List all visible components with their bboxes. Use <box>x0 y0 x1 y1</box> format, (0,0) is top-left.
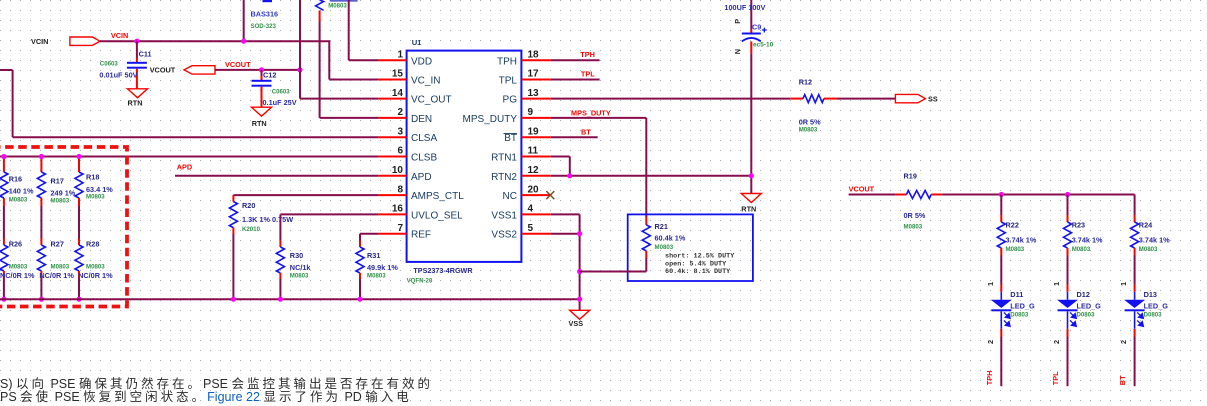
LED D13 value LED_G <box>1144 302 1169 311</box>
svg-text:D0803: D0803 <box>1144 312 1163 319</box>
capacitor C9 top plate <box>742 33 761 35</box>
svg-text:D12: D12 <box>1077 290 1090 299</box>
op-amp U1 body <box>407 51 522 262</box>
capacitor C12 bottom lead <box>261 87 263 108</box>
pin 14 name VC_OUT <box>411 95 452 106</box>
pin 7 REF stub <box>378 233 406 235</box>
resistor R26 bottom stub <box>3 271 5 278</box>
wire UVLO_SEL <box>280 213 378 215</box>
svg-text:10: 10 <box>392 165 404 176</box>
pin 12 number <box>528 165 540 176</box>
resistor R21 top stub <box>645 217 647 225</box>
op-amp U1 footprint VQFN-20 <box>407 277 433 284</box>
svg-text:C11: C11 <box>139 50 152 59</box>
svg-text:M0803: M0803 <box>9 197 28 204</box>
LED D11 designator <box>1010 290 1023 299</box>
svg-text:M0803: M0803 <box>904 224 923 231</box>
resistor R20 bottom stub <box>232 228 234 234</box>
pin 20 name NC <box>503 191 517 202</box>
svg-text:TPL: TPL <box>1051 371 1060 385</box>
svg-text:1.3K 1% 0.75W: 1.3K 1% 0.75W <box>242 215 293 224</box>
svg-text:PG: PG <box>503 95 518 106</box>
resistor R23 zigzag <box>1064 222 1072 248</box>
svg-text:UVLO_SEL: UVLO_SEL <box>411 210 463 221</box>
svg-text:VCOUT: VCOUT <box>150 66 176 75</box>
LED D12 pin 2 label <box>1052 340 1061 344</box>
LED D12 cathode bar <box>1058 309 1078 311</box>
capacitor C9 pin P <box>733 19 742 24</box>
resistor R31 value 49.9k 1% <box>367 263 398 272</box>
svg-text:14: 14 <box>392 88 404 99</box>
svg-text:R23: R23 <box>1072 221 1085 230</box>
resistor R27 footprint <box>51 263 70 270</box>
resistor R? (cut off) zigzag <box>316 0 324 10</box>
resistor R24 bottom stub <box>1134 248 1136 256</box>
wire rail to R22 <box>1000 195 1002 216</box>
svg-text:2: 2 <box>397 107 403 118</box>
svg-text:SOD-323: SOD-323 <box>251 23 277 30</box>
wire VC_OUT net vertical <box>300 0 378 99</box>
pin 3 number <box>397 126 403 137</box>
resistor R26 value NC/0R 1% <box>0 271 35 280</box>
resistor R22 designator <box>1006 221 1019 230</box>
svg-text:5: 5 <box>528 223 534 234</box>
svg-text:M0803: M0803 <box>328 3 347 10</box>
capacitor C9 bottom lead <box>750 41 752 193</box>
svg-text:TPH: TPH <box>580 50 595 59</box>
capacitor C12 plates <box>252 80 272 87</box>
svg-text:9: 9 <box>528 107 534 118</box>
resistor R21 value 60.4k 1% <box>655 234 686 243</box>
wire R18-R28 <box>78 206 80 239</box>
resistor R12 footprint <box>799 127 818 134</box>
resistor R19 value 0R 5% <box>904 211 926 220</box>
resistor R27 bottom stub <box>40 271 42 278</box>
LED D13 footprint D0803 <box>1144 312 1163 319</box>
net label TPL vertical <box>1051 371 1060 385</box>
svg-text:R31: R31 <box>367 251 380 260</box>
pin 15 name VC_IN <box>411 76 440 87</box>
svg-text:R22: R22 <box>1006 221 1019 230</box>
junction R20 bus <box>231 297 236 302</box>
capacitor C11 value 0.01uF 50V <box>99 71 137 80</box>
svg-text:12: 12 <box>528 165 540 176</box>
junction R28 bottom <box>76 297 81 302</box>
resistor R23 value 3.74k 1% <box>1072 236 1103 245</box>
LED D12 emission arrows <box>1070 312 1076 326</box>
svg-text:60.4k 1%: 60.4k 1% <box>655 234 686 243</box>
svg-text:0R 5%: 0R 5% <box>799 118 821 127</box>
pin 4 name VSS1 <box>491 210 517 221</box>
junction R17 top <box>39 154 44 159</box>
svg-text:BT: BT <box>581 128 591 137</box>
wire APD <box>175 175 378 177</box>
pin 4 VSS1 stub <box>521 213 550 215</box>
wire R23 to D12 <box>1067 256 1069 285</box>
pin 4 number <box>528 204 534 215</box>
wire R20 to bus <box>232 234 234 299</box>
svg-text:LED_G: LED_G <box>1010 302 1035 311</box>
resistor R26 top stub <box>3 239 5 246</box>
wire PG to R12 <box>551 98 791 100</box>
svg-text:LED_G: LED_G <box>1144 302 1169 311</box>
svg-text:R30: R30 <box>290 251 303 260</box>
svg-text:R21: R21 <box>655 222 668 231</box>
op-amp U1 designator <box>412 38 422 47</box>
svg-text:TPL: TPL <box>499 76 518 87</box>
port VCIN <box>31 37 100 46</box>
pin 5 VSS2 stub <box>521 233 550 235</box>
junction bus-VSS <box>577 297 582 302</box>
LED D13 pin2 stub <box>1134 329 1136 337</box>
resistor R21 zigzag <box>642 225 650 251</box>
pin 5 name VSS2 <box>491 230 517 241</box>
wire REF to R31 <box>359 234 361 241</box>
pin 2 name DEN <box>411 114 432 125</box>
resistor R22 zigzag <box>997 222 1005 248</box>
svg-text:0.01uF 50V: 0.01uF 50V <box>99 71 137 80</box>
resistor R22 top stub <box>1000 215 1002 222</box>
pin 8 number <box>397 184 403 195</box>
pin 3 CLSA stub <box>378 136 406 138</box>
svg-text:NC/0R 1%: NC/0R 1% <box>39 271 74 280</box>
resistor R12 left stub <box>790 98 803 100</box>
wire R17-R27 <box>40 206 42 239</box>
resistor R26 zigzag <box>0 245 8 271</box>
svg-text:BT: BT <box>1118 375 1127 385</box>
pin 14 VC_OUT stub <box>378 98 406 100</box>
pin 15 VC_IN stub <box>378 79 406 81</box>
resistor R28 designator <box>86 240 99 249</box>
pin 13 name PG <box>503 95 518 106</box>
capacitor C9 plus <box>762 28 767 33</box>
pin 1 VDD stub <box>378 59 406 61</box>
pin 6 CLSB stub <box>378 156 406 158</box>
svg-text:TPH: TPH <box>985 371 994 386</box>
svg-text:VCOUT: VCOUT <box>849 185 875 194</box>
wire VCIN horizontal <box>100 40 330 42</box>
svg-text:RTN2: RTN2 <box>491 172 517 183</box>
svg-text:18: 18 <box>528 50 540 61</box>
svg-text:CLSA: CLSA <box>411 133 437 144</box>
svg-text:M0803: M0803 <box>9 263 28 270</box>
pin 16 UVLO_SEL stub <box>378 213 406 215</box>
resistor R12 right stub <box>824 98 837 100</box>
pin 7 number <box>397 223 403 234</box>
svg-text:M0803: M0803 <box>51 263 70 270</box>
capacitor C12 designator <box>263 71 276 80</box>
resistor R16 bottom stub <box>3 198 5 206</box>
svg-text:3: 3 <box>397 126 403 137</box>
LED D12 value LED_G <box>1077 302 1102 311</box>
net label BT vertical <box>1118 375 1127 385</box>
junction R21 return <box>577 269 582 274</box>
LED D12 cathode lead <box>1067 311 1069 329</box>
svg-text:D0803: D0803 <box>1010 312 1029 319</box>
resistor R24 value 3.74k 1% <box>1139 236 1170 245</box>
svg-text:VSS1: VSS1 <box>491 210 517 221</box>
junction RTN1-RTN2 <box>567 173 572 178</box>
resistor R20 designator <box>242 201 255 210</box>
svg-text:2: 2 <box>1119 340 1128 344</box>
resistor R17 bottom stub <box>40 198 42 206</box>
capacitor C12 value 0.1uF 25V <box>263 98 297 107</box>
resistor R21 bottom stub <box>645 251 647 258</box>
svg-text:8: 8 <box>397 184 403 195</box>
svg-text:C12: C12 <box>263 71 276 80</box>
svg-text:VCIN: VCIN <box>31 37 48 46</box>
LED D12 pin1 stub <box>1067 285 1069 292</box>
LED D12 footprint D0803 <box>1077 312 1096 319</box>
svg-text:VC_IN: VC_IN <box>411 76 440 87</box>
svg-text:NC: NC <box>503 191 517 202</box>
resistor R16 footprint <box>9 197 28 204</box>
pin 17 TPL stub <box>521 79 550 81</box>
resistor R22 bottom stub <box>1000 248 1002 256</box>
junction R30 bus <box>278 297 283 302</box>
pin 10 name APD <box>411 172 432 183</box>
capacitor C11 plates <box>127 62 147 69</box>
resistor R20 value 1.3K 1% 0.75W <box>242 215 293 224</box>
svg-text:TPL: TPL <box>581 69 595 78</box>
wire MPS_DUTY <box>551 118 647 217</box>
svg-text:1: 1 <box>397 50 403 61</box>
resistor R22 footprint <box>1006 246 1025 253</box>
svg-text:RTN1: RTN1 <box>491 153 517 164</box>
resistor R18 footprint <box>86 194 105 201</box>
resistor R24 top stub <box>1134 215 1136 222</box>
resistor R? footprint M0803 <box>328 3 347 10</box>
wire R24 to D13 <box>1134 256 1136 285</box>
resistor R30 bottom stub <box>279 273 281 279</box>
LED D11 anode lead <box>1000 292 1002 300</box>
LED D11 pin 2 label <box>986 340 995 344</box>
resistor R23 top stub <box>1067 215 1069 222</box>
LED D13 designator <box>1144 290 1157 299</box>
resistor R30 top stub <box>279 241 281 248</box>
resistor R17 top stub <box>40 157 42 173</box>
resistor R23 bottom stub <box>1067 248 1069 256</box>
svg-text:R28: R28 <box>86 240 99 249</box>
resistor R28 top stub <box>78 239 80 246</box>
LED D13 cathode lead <box>1134 311 1136 329</box>
pin 11 name RTN1 <box>491 153 517 164</box>
LED D12 designator <box>1077 290 1090 299</box>
note box R21 <box>628 214 753 281</box>
svg-text:TPS2373-4RGWR: TPS2373-4RGWR <box>413 266 473 275</box>
LED D13 pin 2 label <box>1119 340 1128 344</box>
svg-text:VC_OUT: VC_OUT <box>411 95 452 106</box>
wire R31 to bus <box>359 279 361 299</box>
svg-text:U1: U1 <box>412 38 422 47</box>
svg-text:R27: R27 <box>51 240 64 249</box>
svg-text:LED_G: LED_G <box>1077 302 1102 311</box>
pin 15 number <box>392 69 404 80</box>
net label TPL <box>581 69 595 78</box>
svg-text:R20: R20 <box>242 201 255 210</box>
svg-text:M0803: M0803 <box>1139 246 1158 253</box>
svg-text:20: 20 <box>528 184 540 195</box>
svg-text:M0803: M0803 <box>1072 246 1091 253</box>
svg-text:7: 7 <box>397 223 403 234</box>
svg-text:C0603: C0603 <box>100 61 119 68</box>
wire R21 to VSS <box>580 258 647 272</box>
svg-text:49.9k 1%: 49.9k 1% <box>367 263 398 272</box>
note chinese paragraph <box>0 378 520 403</box>
net label VCIN <box>111 31 128 40</box>
svg-text:R19: R19 <box>904 172 917 181</box>
resistor R26 footprint <box>9 263 28 270</box>
resistor R17 zigzag <box>37 172 45 198</box>
resistor R28 value NC/0R 1% <box>78 271 113 280</box>
svg-text:M0803: M0803 <box>655 244 674 251</box>
svg-text:0.1uF 25V: 0.1uF 25V <box>263 98 297 107</box>
ground RTN under C12 <box>252 107 272 128</box>
pin 16 name UVLO_SEL <box>411 210 463 221</box>
resistor R19 left stub <box>895 194 906 196</box>
wire R16-R26 <box>3 206 5 239</box>
svg-text:M0803: M0803 <box>290 273 309 280</box>
resistor R27 value NC/0R 1% <box>39 271 74 280</box>
resistor R31 top stub <box>359 241 361 248</box>
svg-text:4: 4 <box>528 204 534 215</box>
capacitor C9 value 100UF 100V <box>724 3 765 12</box>
cut-off label fragment <box>330 0 358 2</box>
LED D12 triangle <box>1057 300 1078 308</box>
wire BT stub <box>551 136 598 138</box>
svg-text:VQFN-20: VQFN-20 <box>407 277 433 284</box>
resistor R28 footprint <box>86 263 105 270</box>
pin 8 AMPS_CTL stub <box>378 194 406 196</box>
junction C11-VCIN <box>134 39 139 44</box>
resistor R20 top lead <box>232 195 234 202</box>
svg-text:M0803: M0803 <box>86 263 105 270</box>
svg-text:SS: SS <box>928 95 938 104</box>
pin 1 number <box>397 50 403 61</box>
svg-text:1: 1 <box>1052 282 1061 286</box>
svg-text:NC/0R 1%: NC/0R 1% <box>0 271 35 280</box>
note text duty line2 <box>665 261 727 269</box>
resistor R31 designator <box>367 251 380 260</box>
junction R26 bottom <box>1 297 6 302</box>
pin 6 number <box>397 146 403 157</box>
svg-text:R12: R12 <box>799 78 812 87</box>
resistor R16 value <box>9 186 34 195</box>
svg-text:RTN: RTN <box>252 119 267 128</box>
wire CLSA <box>0 70 378 137</box>
wire rail to R23 <box>1067 195 1069 216</box>
svg-text:CLSB: CLSB <box>411 153 437 164</box>
resistor R18 bottom stub <box>78 198 80 206</box>
wire CLSB <box>0 156 378 158</box>
LED D13 triangle <box>1124 300 1145 308</box>
resistor R30 designator <box>290 251 303 260</box>
svg-text:NC/0R 1%: NC/0R 1% <box>78 271 113 280</box>
capacitor C11 top lead <box>136 41 138 63</box>
resistor R21 designator <box>655 222 668 231</box>
no-connect X pin 20 <box>546 191 554 199</box>
resistor R12 value 0R 5% <box>799 118 821 127</box>
pin 2 number <box>397 107 403 118</box>
svg-text:M0803: M0803 <box>799 127 818 134</box>
wire VSS1 <box>551 214 580 310</box>
wire TPH <box>551 59 600 61</box>
pin 17 number <box>528 69 540 80</box>
wire VDD rail C9 top <box>750 0 752 34</box>
wire LED rail <box>942 195 1134 216</box>
LED D11 pin 1 label <box>986 282 995 286</box>
resistor R16 top stub <box>3 157 5 173</box>
svg-text:6: 6 <box>397 146 403 157</box>
wire RTN1 <box>551 157 570 176</box>
capacitor C11 designator <box>139 50 152 59</box>
wire DEN from top resistor <box>320 22 379 118</box>
net label TPH <box>580 50 595 59</box>
svg-text:R16: R16 <box>9 175 22 184</box>
LED D13 emission arrows <box>1137 312 1143 326</box>
pin 13 number <box>528 88 540 99</box>
pin 14 number <box>392 88 404 99</box>
svg-text:short: 12.5% DUTY: short: 12.5% DUTY <box>665 253 735 261</box>
resistor R16 designator <box>9 175 22 184</box>
pin 9 number <box>528 107 534 118</box>
pin 19 number <box>528 126 540 137</box>
svg-text:M0803: M0803 <box>51 197 70 204</box>
wire R27 to bus <box>40 278 42 299</box>
resistor R27 top stub <box>40 239 42 246</box>
resistor R20 footprint K2010 <box>242 226 261 233</box>
wire D12 to TPL <box>1067 337 1069 387</box>
wire VCIN down to VC_IN <box>329 41 378 79</box>
resistor R23 designator <box>1072 221 1085 230</box>
LED D11 footprint D0803 <box>1010 312 1029 319</box>
pin 2 DEN stub <box>378 117 406 119</box>
svg-text:249 1%: 249 1% <box>51 188 76 197</box>
svg-text:VCOUT: VCOUT <box>225 60 251 69</box>
resistor R24 footprint <box>1139 246 1158 253</box>
svg-text:BT: BT <box>504 133 517 144</box>
resistor R26 designator <box>9 240 22 249</box>
LED D11 pin1 stub <box>1000 285 1002 292</box>
pin 8 name AMPS_CTL <box>411 191 464 202</box>
resistor R30 zigzag <box>276 247 284 273</box>
wire VSS2 <box>551 233 580 235</box>
net label MPS_DUTY <box>571 109 611 118</box>
svg-text:VSS2: VSS2 <box>491 230 517 241</box>
resistor R12 designator <box>799 78 812 87</box>
svg-text:AMPS_CTL: AMPS_CTL <box>411 191 464 202</box>
junction VCOUT-VC_OUT line <box>297 67 302 72</box>
svg-text:3.74k 1%: 3.74k 1% <box>1139 236 1170 245</box>
LED D11 cathode lead <box>1000 311 1002 329</box>
net label TPH vertical <box>985 371 994 386</box>
pin 17 name TPL <box>499 76 518 87</box>
capacitor C9 designator <box>752 23 761 32</box>
svg-text:R18: R18 <box>86 173 99 182</box>
net label VCOUT right <box>849 185 875 194</box>
port VCOUT <box>150 66 215 75</box>
resistor R18 designator <box>86 173 99 182</box>
LED D11 value LED_G <box>1010 302 1035 311</box>
svg-text:1: 1 <box>1119 282 1128 286</box>
junction rail R23 <box>1065 192 1070 197</box>
pin 13 PG stub <box>521 98 550 100</box>
wire D11 to TPH <box>1000 337 1002 387</box>
svg-text:60.4k: 8.1% DUTY: 60.4k: 8.1% DUTY <box>665 268 731 276</box>
svg-text:C9: C9 <box>752 23 761 32</box>
resistor R23 footprint <box>1072 246 1091 253</box>
junction R18 top <box>76 154 81 159</box>
